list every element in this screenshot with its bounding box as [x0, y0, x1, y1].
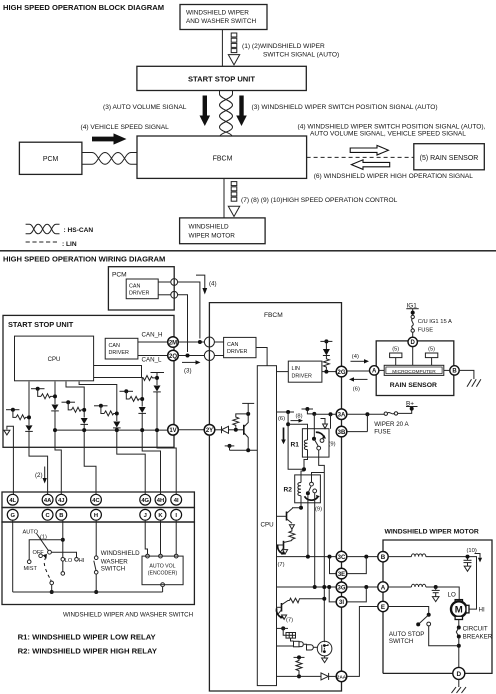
transistor Q4	[281, 603, 283, 612]
svg-text:D: D	[456, 671, 461, 678]
hollow arrow right	[350, 145, 388, 155]
pin B (rain sensor)	[450, 366, 459, 375]
resistor M4	[104, 411, 117, 416]
svg-text:(7): (7)	[278, 562, 285, 568]
twisted pair: PCM to FBCM	[82, 153, 137, 165]
washer switch blade	[94, 561, 96, 571]
capacitor B	[467, 557, 469, 561]
svg-text:RAIN SENSOR: RAIN SENSOR	[390, 382, 437, 389]
svg-text:(4): (4)	[209, 281, 217, 288]
svg-text:FUSE: FUSE	[418, 327, 434, 333]
pole contact	[50, 581, 54, 585]
connector 3C	[336, 551, 347, 562]
wire: CAN_H bus 2M to FBCM	[178, 341, 204, 343]
svg-text:(9): (9)	[329, 441, 336, 447]
emitter rail to CPU	[230, 449, 258, 451]
washer switch column H	[95, 520, 97, 556]
resistor chain	[289, 529, 295, 540]
gate 2	[307, 645, 314, 650]
block: PCM	[19, 142, 82, 174]
svg-text:HIGH SPEED OPERATION BLOCK DIA: HIGH SPEED OPERATION BLOCK DIAGRAM	[3, 3, 164, 12]
junction CAN_H/PCM	[198, 340, 202, 344]
arrow (4)	[351, 360, 365, 362]
pin A (rain sensor)	[370, 366, 379, 375]
washer wire to rail	[95, 574, 97, 592]
svg-text:(5): (5)	[428, 347, 435, 353]
connector 3A	[336, 409, 347, 420]
svg-text:CAN: CAN	[129, 284, 140, 290]
hollow arrow left	[351, 160, 389, 170]
svg-text:B: B	[381, 554, 386, 561]
block: start stop unit	[137, 66, 306, 90]
contact HI	[75, 558, 79, 562]
column M1 from CPU	[28, 382, 30, 426]
capacitor A	[434, 585, 438, 589]
svg-text:OFF: OFF	[33, 550, 45, 556]
svg-text:3A: 3A	[338, 413, 346, 419]
svg-text:A: A	[372, 369, 377, 375]
pins row 2	[7, 509, 181, 520]
svg-text:FBCM: FBCM	[213, 156, 233, 163]
svg-text:(7) (8) (9) (10)HIGH SPEED OPE: (7) (8) (9) (10)HIGH SPEED OPERATION CON…	[241, 197, 398, 204]
connector 3I	[336, 597, 347, 608]
branch to MIST contact	[29, 540, 63, 560]
svg-text:AUTO VOLUME SIGNAL, VEHICLE SP: AUTO VOLUME SIGNAL, VEHICLE SPEED SIGNAL	[310, 130, 466, 137]
wire microcomputer to B	[444, 369, 450, 371]
resistor M3	[72, 407, 85, 412]
sensor element 2	[425, 353, 437, 358]
CAN driver (PCM)	[126, 279, 158, 299]
R2 coil	[298, 483, 301, 496]
svg-text:MIST: MIST	[24, 566, 38, 572]
switch body box	[2, 522, 194, 605]
svg-text:3B: 3B	[338, 430, 346, 436]
CAN driver (start stop unit)	[105, 338, 138, 359]
auto vol (encoder) box	[142, 556, 183, 585]
svg-text:(3) WINDSHIELD WIPER SWITCH P: (3) WINDSHIELD WIPER SWITCH POSITION SIG…	[252, 104, 438, 111]
ground rail of switch	[13, 591, 163, 593]
row box 4x	[2, 492, 194, 508]
transistor Q2 (R2 driver)	[286, 512, 288, 521]
motif M6: tick	[151, 372, 165, 374]
svg-text:D: D	[411, 340, 416, 346]
svg-text:C/U IG1 15 A: C/U IG1 15 A	[418, 319, 452, 325]
fuse symbol	[384, 412, 387, 415]
svg-text:(2): (2)	[35, 472, 43, 479]
svg-text:START STOP UNIT: START STOP UNIT	[8, 320, 74, 329]
junction base	[234, 428, 238, 432]
CAN driver (FBCM)	[224, 337, 256, 357]
ground (rain sensor B)	[467, 379, 481, 386]
FET in circle	[317, 641, 332, 656]
svg-text:WINDSHIELD WIPER MOTOR: WINDSHIELD WIPER MOTOR	[385, 529, 479, 536]
R2 coil bottom node	[300, 496, 302, 508]
1V rail	[55, 429, 168, 431]
svg-text:WINDSHIELD: WINDSHIELD	[189, 224, 230, 231]
column M5	[94, 378, 143, 407]
svg-text:3E: 3E	[338, 572, 345, 578]
wire 3I joins	[347, 587, 367, 602]
separator line	[0, 250, 496, 252]
LIN driver (FBCM)	[288, 361, 322, 382]
diode at 2Y (points left)	[221, 426, 223, 433]
motif M2: tick	[31, 388, 45, 390]
svg-text:3G: 3G	[337, 586, 345, 592]
wire 2AA to E	[347, 607, 378, 677]
block: FBCM (wiring)	[209, 303, 341, 691]
connector 2M	[168, 337, 179, 348]
LO lower contact	[62, 561, 64, 572]
svg-text:4A: 4A	[44, 498, 52, 504]
switch blade dashed with arrow	[43, 554, 47, 559]
svg-text:2Y: 2Y	[206, 428, 213, 434]
svg-text:FUSE: FUSE	[374, 428, 391, 435]
wire M6 from CPU	[94, 366, 142, 378]
resistor M6	[142, 376, 158, 381]
column B to switch	[62, 520, 64, 558]
wire M3 to 4C	[84, 424, 96, 495]
crystal grid symbol	[286, 633, 296, 639]
wire 3E joins	[347, 557, 367, 574]
R1 coil bottom to trunk	[301, 450, 308, 483]
transistor Q3 (3C driver)	[283, 541, 285, 550]
ground (motor D)	[458, 679, 460, 687]
resistor: LIN pull-up	[323, 356, 329, 370]
svg-text:3C: 3C	[338, 555, 346, 561]
svg-text:AUTO VOL: AUTO VOL	[149, 564, 175, 570]
R2 contact	[310, 482, 314, 486]
svg-text:3I: 3I	[339, 600, 344, 606]
resistor base pull-up	[233, 414, 248, 428]
twisted pair: start stop unit to FBCM	[220, 91, 233, 137]
logic cluster	[281, 626, 285, 630]
motif M5: tick	[120, 390, 134, 392]
connector 3E	[336, 568, 347, 579]
svg-text:(8): (8)	[296, 414, 303, 420]
A coil (low)	[388, 586, 411, 588]
svg-text:R1: WINDSHIELD WIPER LOW RELAY: R1: WINDSHIELD WIPER LOW RELAY	[18, 633, 156, 642]
arrow (3)	[182, 361, 196, 363]
wire: 1V to 2Y	[178, 429, 204, 431]
svg-text:1V: 1V	[169, 428, 176, 434]
svg-text:LIN: LIN	[292, 366, 300, 372]
svg-text:LO: LO	[65, 558, 73, 564]
diode M5	[139, 407, 146, 413]
motif M3: tick	[62, 401, 76, 403]
second 3A wire dot with drop	[329, 412, 333, 416]
svg-text:R1: R1	[291, 442, 300, 449]
wire M6 to 4I	[157, 392, 176, 495]
svg-text:(4) VEHICLE SPEED SIGNAL: (4) VEHICLE SPEED SIGNAL	[81, 124, 170, 131]
microcomputer	[384, 365, 444, 375]
contact AUTO	[48, 550, 52, 554]
resistor M2	[41, 394, 55, 399]
pin B (motor)	[378, 552, 388, 562]
pole wire to rail	[51, 585, 53, 592]
svg-text:M: M	[455, 605, 463, 616]
diode: LIN pull-up	[323, 341, 330, 355]
relay R1	[291, 429, 330, 457]
wire M2 to 4J	[55, 411, 61, 495]
diode M6	[154, 386, 161, 392]
svg-text:4J: 4J	[58, 498, 64, 504]
svg-text:(6): (6)	[278, 416, 285, 422]
svg-text:DRIVER: DRIVER	[109, 350, 129, 356]
resistor Q4 collector	[290, 598, 325, 603]
svg-text:CPU: CPU	[261, 522, 274, 529]
svg-text:2AA: 2AA	[337, 674, 347, 679]
arrow (4) bent	[196, 275, 205, 288]
collector node + supply tick	[246, 412, 250, 416]
svg-text:SWITCH: SWITCH	[101, 566, 125, 573]
block: FBCM	[137, 136, 307, 178]
column M4	[79, 382, 117, 422]
svg-text:(1) (2)WINDSHIELD WIPER: (1) (2)WINDSHIELD WIPER	[242, 43, 325, 50]
svg-text:(5): (5)	[392, 347, 399, 353]
svg-text:(5) RAIN SENSOR: (5) RAIN SENSOR	[420, 155, 479, 162]
diode M1	[26, 425, 33, 431]
arrow right: vehicle speed signal	[92, 133, 127, 144]
junction LIN pullup	[324, 370, 328, 374]
R1 contact	[312, 437, 316, 441]
wire: CPU to LIN driver	[277, 371, 289, 373]
svg-text:(3) AUTO VOLUME SIGNAL: (3) AUTO VOLUME SIGNAL	[103, 104, 187, 111]
svg-text:CIRCUIT: CIRCUIT	[463, 626, 488, 633]
2AA wire with diode	[277, 675, 322, 677]
pin D (motor)	[453, 667, 465, 679]
svg-text:B: B	[452, 369, 457, 375]
svg-text:4I: 4I	[174, 498, 179, 504]
svg-text:(4): (4)	[352, 354, 359, 360]
svg-text:CPU: CPU	[48, 357, 61, 363]
wire: PCM CAN_H down to bus	[178, 282, 200, 339]
wire AUTO to HI	[51, 552, 76, 557]
block: windshield wiper and washer switch	[180, 5, 267, 30]
junction / supply stub	[324, 339, 328, 343]
svg-text:R2: R2	[284, 487, 293, 494]
connector 2Q	[168, 350, 179, 361]
wire: LIN driver to 2G	[322, 371, 336, 373]
connector 1V	[168, 425, 179, 436]
svg-text:CAN_L: CAN_L	[142, 357, 163, 364]
svg-text:A: A	[381, 584, 386, 591]
svg-text:DRIVER: DRIVER	[129, 291, 149, 297]
svg-text:WIPER MOTOR: WIPER MOTOR	[189, 233, 236, 240]
column G to ground rail	[12, 520, 14, 592]
dashed LIN wire: FBCM to rain sensor	[307, 156, 414, 158]
contact OFF	[39, 554, 43, 558]
svg-text:WIPER 20 A: WIPER 20 A	[374, 421, 409, 428]
connector 2AA	[336, 671, 347, 682]
svg-text:FBCM: FBCM	[264, 312, 283, 319]
svg-text:AND WASHER SWITCH: AND WASHER SWITCH	[186, 18, 256, 25]
thick down arrow (8)	[283, 428, 285, 440]
svg-text:R2: WINDSHIELD WIPER HIGH RELA: R2: WINDSHIELD WIPER HIGH RELAY	[18, 647, 157, 656]
legend: LIN dashed symbol	[26, 241, 60, 243]
wire: FBCM to wiper motor	[223, 178, 225, 218]
svg-text:WINDSHIELD WIPER AND WASHER SW: WINDSHIELD WIPER AND WASHER SWITCH	[63, 612, 193, 619]
3I link	[329, 587, 336, 602]
block: (5) rain sensor	[414, 144, 485, 170]
sensor element 1	[390, 353, 402, 358]
svg-text:(3): (3)	[184, 368, 192, 375]
legend: HS-CAN twisted pair symbol	[26, 224, 60, 234]
row box letters	[2, 508, 194, 523]
svg-text:2Q: 2Q	[169, 354, 177, 360]
svg-text:J: J	[144, 513, 147, 519]
LIN signal arrow (7)(8)(9)(10) ladder	[228, 182, 239, 217]
LIN signal arrow (1)(2) ladder	[228, 33, 239, 65]
motor M	[455, 600, 462, 603]
svg-text:CAN_H: CAN_H	[142, 332, 163, 339]
wire 2G to rain sensor A	[347, 370, 370, 372]
wire: CAN driver to pins	[158, 281, 171, 283]
svg-text:(ENCODER): (ENCODER)	[148, 571, 178, 577]
wire 2Y input	[215, 429, 222, 431]
block: PCM (wiring)	[108, 267, 174, 310]
svg-text:AUTO: AUTO	[23, 530, 39, 536]
circuit breaker	[458, 620, 460, 628]
rain sensor box	[376, 341, 454, 396]
svg-text:PCM: PCM	[112, 272, 127, 279]
relay drive from CPU (8)	[277, 411, 295, 413]
motif M1: tick	[6, 409, 19, 411]
arrow (6)	[354, 378, 368, 380]
pull-down resistor at 2AA	[294, 656, 305, 658]
pin FBCM CAN_H	[204, 337, 214, 347]
pin D (rain sensor)	[408, 337, 417, 346]
svg-text:(9): (9)	[315, 507, 322, 513]
pin PCM CAN_H	[171, 279, 178, 286]
B+ tick to 3A wire	[302, 408, 314, 410]
relay R2	[284, 475, 321, 503]
svg-text:SWITCH: SWITCH	[389, 638, 413, 645]
svg-text:(7): (7)	[286, 618, 293, 624]
R1 common feed	[313, 414, 315, 440]
svg-text:E: E	[381, 604, 385, 611]
svg-text:BREAKER: BREAKER	[463, 634, 493, 641]
motif M4: tick	[94, 405, 108, 407]
encoder pins	[145, 520, 147, 554]
wire 3G to A	[347, 586, 378, 588]
motor box outline	[383, 540, 492, 673]
wire: CAN_L bus 2Q to FBCM	[178, 355, 204, 357]
connector 3G	[336, 582, 347, 593]
block: windshield wiper motor	[180, 218, 266, 244]
svg-text:PCM: PCM	[43, 156, 59, 163]
pin A (motor)	[378, 582, 388, 592]
gate 1	[294, 641, 300, 647]
column M2	[54, 382, 56, 405]
AUTO pointer line	[37, 534, 49, 551]
diode M2	[52, 405, 59, 411]
pin FBCM CAN_L	[204, 351, 214, 361]
wire: FBCM pins to CAN driver	[214, 341, 223, 343]
wire 4L with entry arrow	[7, 426, 13, 495]
svg-text:4G: 4G	[141, 498, 149, 504]
svg-text:2M: 2M	[169, 340, 177, 346]
svg-text:: HS-CAN: : HS-CAN	[64, 227, 94, 234]
svg-text:CAN: CAN	[227, 342, 238, 348]
wire M1 to 4A	[29, 431, 48, 495]
drive trunk	[288, 412, 304, 469]
fuse C/U IG1 15A	[411, 315, 414, 318]
svg-text:2G: 2G	[337, 370, 345, 376]
resistor M5	[130, 396, 143, 401]
3E link	[330, 557, 337, 574]
svg-text:LO: LO	[448, 592, 456, 599]
3G wire	[277, 586, 337, 588]
contact LO	[61, 558, 65, 562]
block: START STOP UNIT (wiring)	[3, 315, 174, 447]
pin E (motor)	[378, 601, 388, 611]
wire B to ground	[459, 370, 474, 379]
svg-text:START STOP UNIT: START STOP UNIT	[188, 75, 255, 84]
svg-text:G: G	[10, 513, 15, 519]
R2 outputs down	[314, 493, 316, 587]
svg-text:4H: 4H	[157, 498, 164, 504]
svg-text:MICROCOMPUTER: MICROCOMPUTER	[392, 369, 436, 375]
3B link	[347, 431, 368, 433]
svg-text:HI: HI	[479, 606, 485, 613]
svg-text:HI: HI	[79, 558, 85, 564]
R1 output down	[319, 450, 325, 641]
wire M4 to 4G	[117, 428, 145, 495]
diode M4	[113, 422, 120, 428]
svg-text:CAN: CAN	[109, 343, 120, 349]
washer lower contact	[94, 571, 98, 575]
svg-text:(6): (6)	[353, 387, 360, 393]
IG1 feed	[412, 309, 414, 316]
encoder ground pin	[161, 583, 165, 587]
CPU (start stop unit)	[15, 336, 94, 381]
svg-text:AUTO STOP: AUTO STOP	[389, 631, 425, 638]
B coil (high)	[388, 556, 411, 558]
svg-text:(6) WINDSHIELD WIPER HIGH OPER: (6) WINDSHIELD WIPER HIGH OPERATION SIGN…	[314, 173, 474, 180]
wire: PCM CAN_L down to bus	[178, 295, 188, 352]
svg-text:B: B	[59, 513, 63, 519]
pins row 1	[7, 494, 181, 505]
node wiper B	[61, 538, 65, 542]
svg-text:WINDSHIELD: WINDSHIELD	[101, 550, 140, 557]
3A internal wire	[314, 413, 336, 415]
3C wire	[277, 556, 337, 558]
svg-text:H: H	[94, 513, 98, 519]
pin PCM CAN_L	[171, 291, 178, 298]
svg-text:HIGH SPEED OPERATION WIRING DI: HIGH SPEED OPERATION WIRING DIAGRAM	[3, 255, 165, 264]
svg-text:DRIVER: DRIVER	[292, 374, 312, 380]
svg-text:4L: 4L	[9, 498, 16, 504]
CPU (FBCM) tall box	[257, 366, 276, 686]
svg-text:DRIVER: DRIVER	[227, 349, 247, 355]
R1 coil	[304, 440, 307, 450]
resistor M1	[16, 415, 29, 420]
wire M5 to 4H	[142, 413, 160, 495]
connector 2G	[336, 366, 347, 377]
junction CAN_L/PCM	[186, 354, 190, 358]
svg-text:4C: 4C	[92, 498, 100, 504]
arrow down: auto volume signal	[200, 96, 211, 127]
hook arrow (9) into R1	[321, 419, 326, 424]
svg-text:WINDSHIELD WIPER: WINDSHIELD WIPER	[186, 10, 249, 17]
svg-text:: LIN: : LIN	[62, 241, 77, 248]
wire to R1 coil	[288, 424, 307, 440]
wire A to microcomputer	[379, 369, 384, 371]
column M3	[66, 382, 84, 418]
svg-text:WASHER: WASHER	[101, 558, 128, 565]
transistor Q1	[243, 425, 245, 435]
diode M3	[81, 418, 88, 424]
